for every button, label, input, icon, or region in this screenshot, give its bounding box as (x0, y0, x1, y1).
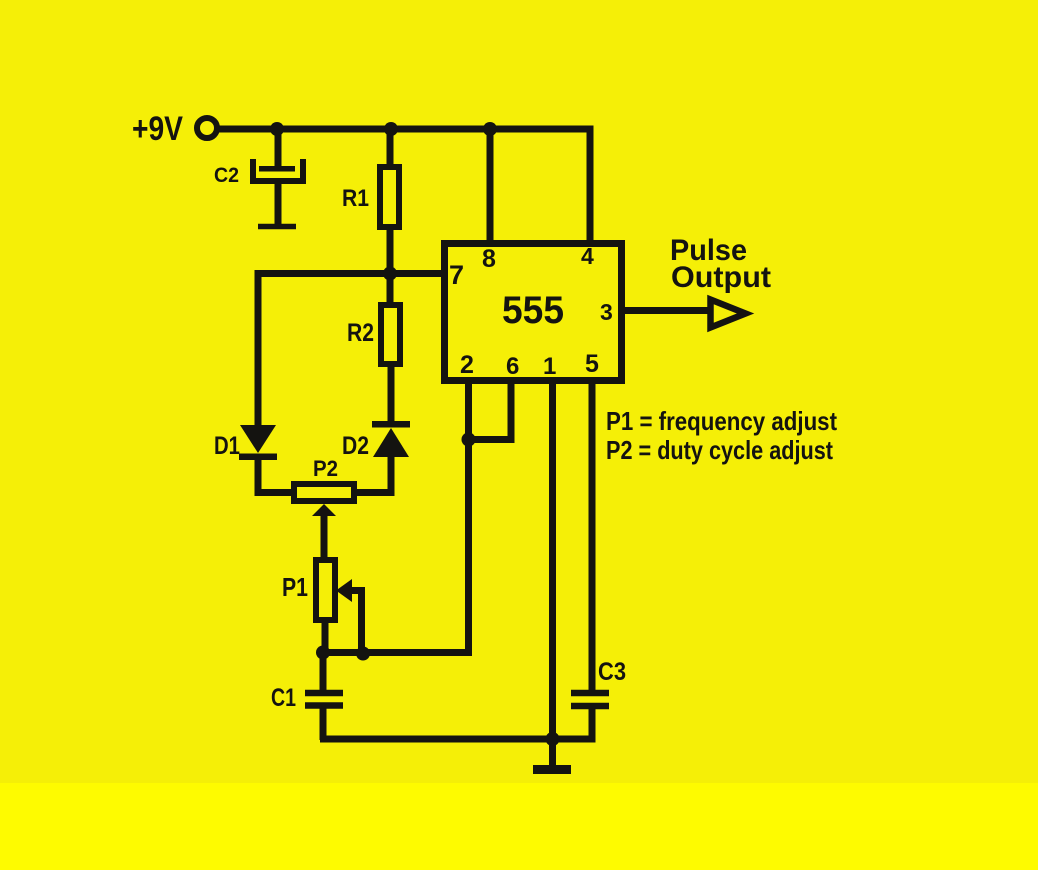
svg-text:P2: P2 (313, 456, 338, 481)
node dot at pin 8 tap (483, 122, 497, 136)
svg-text:C2: C2 (214, 164, 239, 187)
capacitor C2 end bar (258, 224, 296, 230)
+9V terminal circle (197, 118, 217, 138)
svg-text:555: 555 (502, 289, 564, 332)
potentiometer P2 wiper arrow (312, 504, 336, 516)
wire pin 6 drop joining pin 2 (468, 384, 511, 440)
svg-text:4: 4 (581, 243, 594, 269)
bottom bright band (0, 783, 1038, 870)
capacitor C2 lower lead (275, 184, 282, 224)
potentiometer P2 body (294, 484, 354, 501)
capacitor C2 top plate (259, 166, 295, 172)
diode D2 (cathode bar top, anode bottom) (372, 421, 410, 457)
svg-text:R2: R2 (347, 319, 374, 347)
wire R1 top lead (387, 129, 394, 166)
wire D1 to P2 left (258, 458, 292, 493)
svg-text:5: 5 (585, 350, 599, 378)
wire pin 8 drop (487, 129, 494, 241)
svg-text:7: 7 (449, 260, 464, 290)
capacitor C2 cup plate (253, 159, 303, 181)
wire R2 top lead (387, 271, 394, 304)
node dot at pin2/pin6 junction (462, 433, 476, 447)
wire pin 3 output lead (625, 307, 710, 314)
node dot at C2 tap (270, 122, 284, 136)
svg-text:P2 = duty cycle adjust: P2 = duty cycle adjust (606, 435, 833, 465)
svg-text:P1 = frequency adjust: P1 = frequency adjust (606, 406, 837, 436)
resistor R2 (381, 305, 400, 364)
wire P2 wiper stem to P1 top (321, 510, 328, 559)
resistor R1 (380, 167, 399, 227)
node dot at P1 bottom node (316, 646, 330, 660)
wire pin 1 drop to ground rail (549, 384, 556, 739)
svg-text:R1: R1 (342, 185, 369, 212)
wire C2 branch (275, 129, 282, 167)
wire C1 bottom lead (320, 706, 327, 740)
node dot at R1 tap (384, 122, 398, 136)
wire R2 bottom lead to D2 (388, 365, 395, 423)
wire pin 5 drop to C3 (589, 384, 596, 692)
svg-text:D2: D2 (342, 432, 369, 460)
potentiometer P1 body (316, 560, 335, 620)
diode D1 (anode top, cathode bar bottom) (239, 425, 277, 460)
svg-text:Output: Output (671, 261, 771, 294)
capacitor C3 plates (571, 693, 609, 706)
svg-text:8: 8 (482, 245, 496, 273)
svg-text:+9V: +9V (132, 110, 183, 148)
wire R1 bottom lead (387, 228, 394, 276)
svg-text:P1: P1 (282, 572, 308, 602)
node dot at ground junction (546, 732, 560, 746)
ground symbol bar (533, 765, 571, 774)
svg-text:D1: D1 (214, 432, 240, 460)
node dot at R1/R2/pin7 junction (383, 267, 397, 281)
svg-text:C3: C3 (598, 658, 626, 686)
svg-text:3: 3 (600, 299, 613, 325)
potentiometer P1 wiper arrow (336, 579, 352, 602)
node dot at wiper return node (356, 647, 370, 661)
svg-text:2: 2 (460, 351, 474, 379)
wire ground stem (549, 739, 556, 766)
wire top rail from +9V to pin4 corner, down to pin 4 (219, 129, 590, 241)
output arrow symbol (711, 300, 746, 328)
wire bottom ground rail with C3 bottom lead (320, 705, 592, 739)
wire P1 bottom lead (322, 621, 329, 655)
svg-text:6: 6 (506, 353, 519, 380)
svg-text:C1: C1 (271, 684, 296, 712)
wire P1 wiper stem to bottom node (345, 591, 362, 655)
wire pin 2 drop joining bottom node row (320, 384, 469, 653)
wire C1 top lead (320, 649, 327, 692)
wire D2 to P2 right (356, 455, 391, 493)
op IC U1 555 timer box (445, 244, 622, 381)
capacitor C1 plates (305, 693, 343, 706)
svg-text:1: 1 (543, 353, 556, 380)
wire pin7 row with left corner down to D1 (258, 274, 443, 427)
